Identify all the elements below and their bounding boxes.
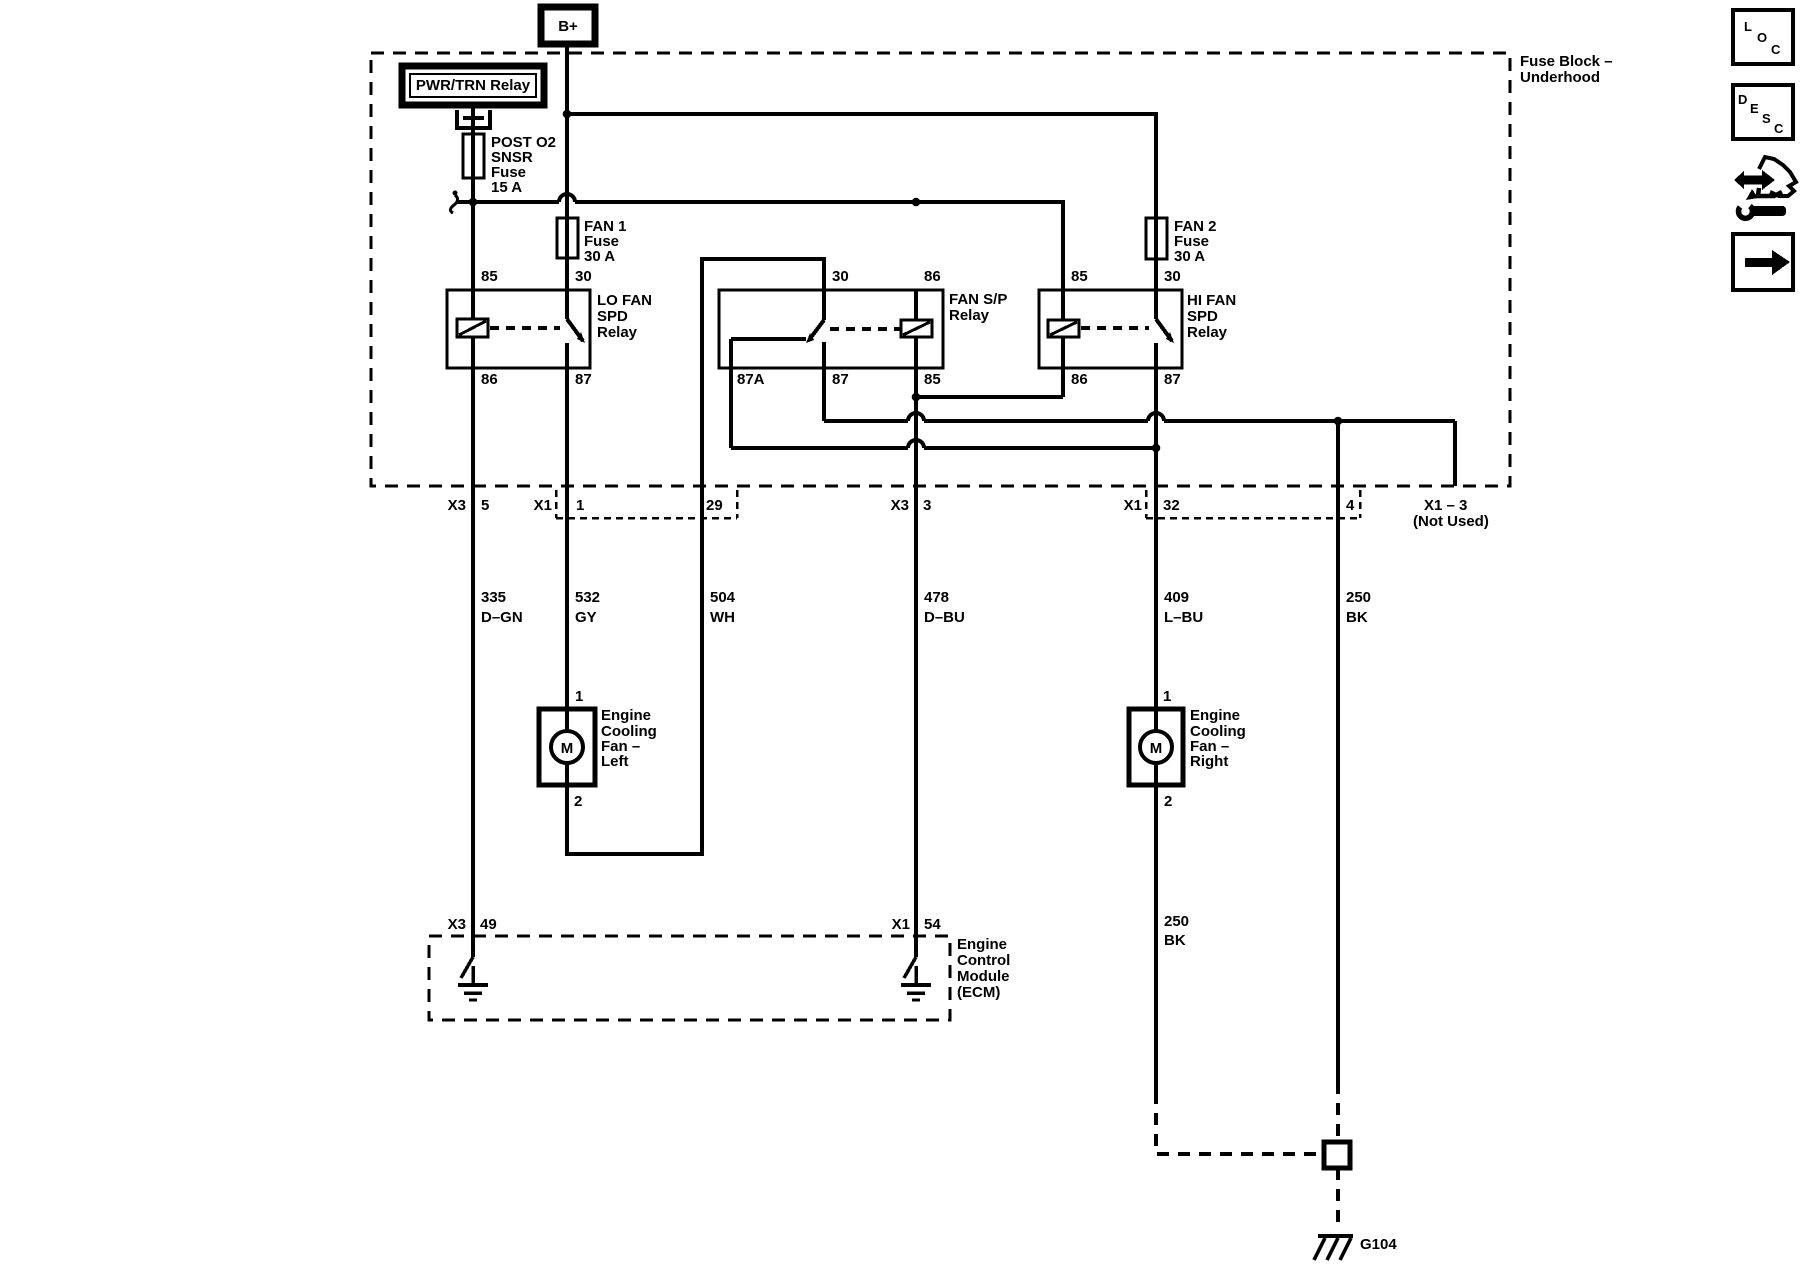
splice — [1324, 1142, 1350, 1168]
svg-text:D: D — [1738, 92, 1747, 107]
svg-text:(ECM): (ECM) — [957, 984, 1000, 1001]
fuse block underhood dashed boundary — [371, 53, 1510, 486]
PWR/TRN relay output connector bracket — [455, 106, 492, 134]
svg-text:S: S — [1762, 111, 1771, 126]
svg-text:86: 86 — [924, 268, 941, 285]
svg-text:Engine: Engine — [601, 707, 651, 724]
wire HI FAN 86 jog — [916, 368, 1063, 397]
svg-text:X3: X3 — [448, 497, 466, 514]
svg-text:G104: G104 — [1360, 1236, 1397, 1253]
svg-text:BK: BK — [1164, 932, 1186, 949]
wire right motor pin 2 (250 BK) to splice — [1156, 785, 1322, 1154]
svg-text:85: 85 — [924, 371, 941, 388]
svg-text:Engine: Engine — [957, 936, 1007, 953]
svg-text:X1: X1 — [534, 497, 552, 514]
wire FAN S/P 87A to HI FAN 87 junction — [731, 368, 1156, 448]
ECM pin labels X1 54 — [892, 916, 942, 933]
svg-text:BK: BK — [1346, 609, 1368, 626]
wire POST O2 fuse to rail — [471, 178, 475, 290]
svg-text:X3: X3 — [891, 497, 909, 514]
svg-text:LO FAN: LO FAN — [597, 292, 652, 309]
svg-text:SPD: SPD — [597, 308, 628, 325]
svg-text:1: 1 — [575, 688, 583, 705]
svg-text:C: C — [1771, 42, 1781, 57]
wire ignition rail (y=202) with hop over B+ wire — [456, 194, 1063, 290]
svg-text:HI FAN: HI FAN — [1187, 292, 1236, 309]
ECM pin labels X3 49 — [448, 916, 497, 933]
svg-text:L–BU: L–BU — [1164, 609, 1203, 626]
fuse FAN 2 Fuse 30 A — [1146, 218, 1217, 265]
wire label 504 WH — [710, 589, 736, 626]
wire label 532 GY — [575, 589, 600, 626]
motor Engine Cooling Fan - Left — [539, 688, 657, 810]
wire top rail B+ to FAN 2 fuse — [567, 114, 1156, 218]
svg-text:D–BU: D–BU — [924, 609, 965, 626]
wire 250 BK right vertical — [1336, 421, 1340, 1142]
ground G104 — [1314, 1236, 1397, 1260]
svg-text:532: 532 — [575, 589, 600, 606]
svg-text:87: 87 — [832, 371, 849, 388]
B+ battery feed terminal — [541, 7, 595, 44]
node junction B+ rail — [563, 110, 572, 119]
svg-text:GY: GY — [575, 609, 597, 626]
svg-text:WH: WH — [710, 609, 735, 626]
node junction rail / FAN S-P relay coil — [912, 198, 921, 207]
svg-text:5: 5 — [481, 497, 489, 514]
dashed wire splice to ground — [1336, 1168, 1340, 1228]
wire B+ vertical drop — [565, 44, 569, 218]
svg-text:30: 30 — [832, 268, 849, 285]
svg-text:M: M — [561, 740, 574, 757]
wire label 335 D-GN — [481, 589, 523, 626]
icon arrow box — [1733, 234, 1793, 290]
svg-text:85: 85 — [481, 268, 498, 285]
fuse POST O2 SNSR Fuse 15 A — [463, 134, 556, 196]
svg-text:4: 4 — [1346, 497, 1355, 514]
svg-text:X1 – 3: X1 – 3 — [1424, 497, 1467, 514]
svg-text:86: 86 — [481, 371, 498, 388]
hook squiggle at rail left end — [450, 191, 457, 214]
svg-text:29: 29 — [706, 497, 723, 514]
svg-text:409: 409 — [1164, 589, 1189, 606]
svg-text:1: 1 — [1163, 688, 1171, 705]
svg-text:M: M — [1150, 740, 1163, 757]
icon LOC box — [1733, 10, 1793, 64]
svg-text:478: 478 — [924, 589, 949, 606]
label Engine Control Module (ECM) — [957, 936, 1010, 1001]
svg-text:X3: X3 — [448, 916, 466, 933]
svg-text:54: 54 — [924, 916, 941, 933]
svg-text:B+: B+ — [558, 18, 578, 35]
svg-text:2: 2 — [574, 793, 582, 810]
relay FAN S/P Relay — [719, 268, 1007, 388]
svg-text:335: 335 — [481, 589, 506, 606]
label X1-3 Not Used — [1413, 497, 1489, 530]
svg-text:X1: X1 — [892, 916, 910, 933]
PWR/TRN Relay box — [402, 66, 544, 105]
wire LO FAN 86 to ECM (335 D-GN) — [471, 368, 475, 936]
svg-text:504: 504 — [710, 589, 736, 606]
connector dashed box X1 pins 1-29 — [556, 490, 737, 518]
svg-text:3: 3 — [923, 497, 931, 514]
svg-text:L: L — [1744, 19, 1752, 34]
ECM low side driver switch right — [901, 936, 931, 1000]
wire left motor pin 2 return to 504 WH — [567, 486, 702, 854]
node junction 87 wire / 250 BK — [1334, 417, 1343, 426]
svg-text:FAN S/P: FAN S/P — [949, 291, 1007, 308]
icon schematic navigation arrows and wrench — [1734, 157, 1796, 218]
wire label 409 L-BU — [1164, 589, 1203, 626]
ECM dashed box — [429, 936, 950, 1020]
relay HI FAN SPD Relay — [1039, 268, 1236, 388]
svg-text:250: 250 — [1346, 589, 1371, 606]
motor Engine Cooling Fan - Right — [1129, 688, 1246, 810]
svg-text:250: 250 — [1164, 913, 1189, 930]
svg-text:Right: Right — [1190, 753, 1228, 770]
svg-text:D–GN: D–GN — [481, 609, 523, 626]
svg-text:Relay: Relay — [597, 324, 638, 341]
wire FAN 1 fuse to LO FAN relay pin 30 — [565, 258, 569, 290]
svg-text:87A: 87A — [737, 371, 765, 388]
ECM low side driver switch left — [458, 936, 488, 1000]
svg-text:15 A: 15 A — [491, 179, 522, 196]
wire label 250 BK lower — [1164, 913, 1189, 949]
svg-text:(Not Used): (Not Used) — [1413, 513, 1489, 530]
svg-text:X1: X1 — [1124, 497, 1142, 514]
relay LO FAN SPD Relay — [447, 268, 652, 388]
wire FAN S/P 85 to ECM (478 D-BU) — [914, 368, 918, 936]
svg-text:Fuse Block –: Fuse Block – — [1520, 53, 1613, 70]
svg-text:87: 87 — [1164, 371, 1181, 388]
wire HI FAN 87 to right fan motor (409 L-BU) — [1154, 368, 1158, 709]
svg-text:Relay: Relay — [949, 307, 990, 324]
svg-text:2: 2 — [1164, 793, 1172, 810]
svg-text:30: 30 — [1164, 268, 1181, 285]
svg-text:SPD: SPD — [1187, 308, 1218, 325]
svg-text:E: E — [1750, 101, 1759, 116]
label Fuse Block - Underhood — [1520, 53, 1613, 86]
node junction rail / POST O2 fuse — [469, 198, 478, 207]
svg-text:32: 32 — [1163, 497, 1180, 514]
svg-text:Control: Control — [957, 952, 1010, 969]
svg-text:O: O — [1757, 30, 1767, 45]
svg-text:Relay: Relay — [1187, 324, 1228, 341]
svg-text:49: 49 — [480, 916, 497, 933]
svg-text:86: 86 — [1071, 371, 1088, 388]
wire FAN S/P 87 to ground wire and X1-3 stub — [824, 368, 1455, 486]
svg-text:85: 85 — [1071, 268, 1088, 285]
svg-text:PWR/TRN Relay: PWR/TRN Relay — [416, 77, 531, 94]
wire label 478 D-BU — [924, 589, 965, 626]
connector dashed box X1 pins 32-4 — [1146, 490, 1360, 518]
connector pin labels at fuse block border — [448, 497, 1355, 514]
wire LO FAN 87 to left fan motor (532 GY) — [565, 368, 569, 709]
svg-text:Underhood: Underhood — [1520, 69, 1600, 86]
svg-text:30: 30 — [575, 268, 592, 285]
node junction FAN S/P 85 / HI FAN 86 — [912, 393, 921, 402]
svg-text:Engine: Engine — [1190, 707, 1240, 724]
svg-text:Left: Left — [601, 753, 629, 770]
icon DESC box — [1733, 85, 1793, 139]
svg-text:30 A: 30 A — [1174, 248, 1205, 265]
node junction 87A / HI FAN 87 — [1152, 444, 1161, 453]
svg-text:Module: Module — [957, 968, 1010, 985]
svg-text:30 A: 30 A — [584, 248, 615, 265]
svg-text:87: 87 — [575, 371, 592, 388]
wire label 250 BK upper — [1346, 589, 1371, 626]
wire FAN 2 fuse to HI FAN relay pin 30 — [1154, 259, 1158, 290]
svg-text:1: 1 — [576, 497, 584, 514]
fuse FAN 1 Fuse 30 A — [557, 218, 627, 265]
wire FAN S/P pin30 feed from connector 29 — [702, 259, 824, 486]
svg-text:C: C — [1774, 121, 1784, 136]
